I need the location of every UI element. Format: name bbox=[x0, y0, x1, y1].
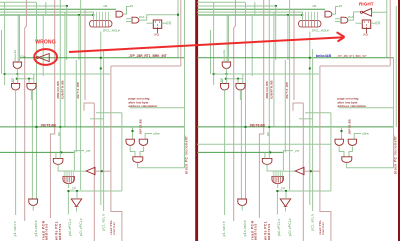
wire stub column R bbox=[254, 2, 256, 15]
wire G1 output R bbox=[267, 164, 282, 171]
wire column M2 R bbox=[287, 15, 289, 60]
wire mid column b R bbox=[312, 49, 314, 211]
inverter T1 (wrongly placed) L bbox=[39, 54, 50, 62]
wire GB input R bbox=[354, 134, 361, 140]
wire stub column L bbox=[45, 2, 47, 15]
and-gate G1 R bbox=[262, 158, 272, 164]
wire S1 bottom stub R bbox=[366, 28, 368, 33]
wire column O L bbox=[93, 12, 95, 19]
wire red column G R bbox=[259, 0, 263, 218]
wire GB input L bbox=[145, 134, 152, 140]
wire column A0 R bbox=[210, 30, 212, 74]
wire 2CA to inverter R bbox=[348, 12, 360, 20]
wire GB out L bbox=[140, 146, 143, 157]
svg-text:_J9bT8.6B: _J9bT8.6B bbox=[37, 123, 56, 127]
wire column F R bbox=[245, 2, 247, 199]
svg-text:address: address bbox=[254, 223, 258, 240]
and-gate G1 L bbox=[53, 158, 63, 164]
inverter T2 R bbox=[295, 167, 304, 174]
and-gate G4 R bbox=[238, 199, 247, 205]
wire column L R bbox=[284, 60, 286, 152]
svg-text:address: address bbox=[267, 223, 271, 240]
wire red column N R bbox=[293, 9, 295, 100]
wire inverter U2 output R bbox=[372, 12, 387, 58]
inverter T2 L bbox=[86, 167, 95, 174]
wire net H3 rail R bbox=[197, 11, 303, 13]
wire S1 right pin L bbox=[162, 22, 167, 24]
and-gate A2 L bbox=[132, 17, 139, 23]
and-gate GC L bbox=[133, 157, 143, 163]
wire column A0 L bbox=[1, 30, 3, 74]
svg-text:_J7P_J8R_RT1_BRK_INT: _J7P_J8R_RT1_BRK_INT bbox=[335, 54, 367, 58]
svg-text:p1.valce: p1.valce bbox=[13, 221, 17, 236]
wire net addr-calc vertical R bbox=[393, 58, 395, 127]
wire C2 output L bbox=[68, 184, 70, 188]
svg-text:J9/TJ.8B: J9/TJ.8B bbox=[76, 82, 80, 99]
svg-text:_J7P: _J7P bbox=[84, 150, 91, 153]
svg-text:J9: J9 bbox=[130, 4, 134, 8]
svg-text:_J7P_J8R_RT1_BRK_INT: _J7P_J8R_RT1_BRK_INT bbox=[126, 54, 167, 58]
and-gate GB L bbox=[139, 139, 147, 145]
wire net H78 R bbox=[226, 78, 243, 80]
svg-text:2w: 2w bbox=[14, 50, 17, 53]
wire red bracket R bbox=[320, 65, 390, 67]
wire right column green2 R bbox=[395, 6, 397, 127]
svg-text:J9/TJ.8B: J9/TJ.8B bbox=[285, 82, 289, 99]
wire B3 inputs R bbox=[237, 79, 239, 84]
wire G4 output R bbox=[241, 205, 243, 210]
wire A2 inputs R bbox=[335, 18, 341, 20]
wire T3 output R bbox=[285, 208, 287, 212]
wire net T8.6B R bbox=[197, 126, 394, 128]
svg-text:J6P15.8B: J6P15.8B bbox=[138, 118, 142, 134]
wire net lower jog R bbox=[283, 151, 293, 153]
flip-flop S1 L bbox=[153, 20, 161, 28]
and-gate B3 R bbox=[236, 84, 245, 91]
and-gate B1 L bbox=[13, 62, 21, 68]
wire column A R bbox=[213, 2, 215, 85]
wire red column X L bbox=[93, 103, 95, 241]
wire mid column c R bbox=[330, 113, 332, 191]
wire GB out R bbox=[349, 146, 352, 157]
wire B2 output L bbox=[15, 90, 17, 215]
and-gate GA R bbox=[335, 139, 343, 145]
wire 2CA long route L bbox=[139, 15, 178, 20]
svg-text:_J7P: _J7P bbox=[279, 188, 286, 191]
svg-text:J11: J11 bbox=[312, 4, 317, 8]
wire mid column b L bbox=[103, 49, 105, 211]
wire red bracket vertical L bbox=[111, 66, 122, 241]
svg-text:control: control bbox=[112, 222, 116, 235]
wire right column green2 L bbox=[184, 0, 186, 58]
wire B2 inputs L bbox=[13, 79, 15, 84]
wire extra net R bbox=[197, 143, 331, 145]
svg-text:pCl.vPCLv: pCl.vPCLv bbox=[288, 218, 292, 236]
wire C2 output R bbox=[277, 184, 279, 188]
svg-text:J9: J9 bbox=[339, 4, 343, 8]
wire net addr-calc R bbox=[339, 107, 394, 109]
wire right column top R bbox=[386, 0, 388, 12]
wire red bracket inner R bbox=[293, 103, 303, 111]
wire T3 feed net R bbox=[277, 190, 331, 192]
inverter U2 R bbox=[363, 8, 372, 16]
wire S1 left pin R bbox=[356, 22, 363, 24]
svg-text:pCL.vbLn: pCL.vbLn bbox=[101, 214, 105, 230]
and-gate B1 R bbox=[222, 62, 230, 68]
wire net H0 top rail R bbox=[197, 1, 246, 3]
wire A1 output to J9 L bbox=[123, 7, 129, 15]
wire T3 feed net L bbox=[68, 190, 122, 192]
wire column B L bbox=[17, 16, 19, 62]
wire column L L bbox=[75, 60, 77, 152]
wire B3 output L bbox=[30, 90, 32, 100]
wire column A2 L bbox=[42, 15, 44, 76]
connector C2 R bbox=[272, 176, 284, 183]
wire G1 inputs L bbox=[55, 152, 57, 158]
svg-text:address: address bbox=[45, 223, 49, 240]
svg-text:pbl.vPCLv: pbl.vPCLv bbox=[277, 219, 281, 236]
svg-text:R8: R8 bbox=[169, 21, 172, 25]
wire T3 output L bbox=[76, 208, 78, 212]
left half schematic bbox=[0, 0, 189, 241]
wire A2 inputs L bbox=[126, 18, 132, 20]
wire column M R bbox=[289, 0, 291, 190]
right half schematic bbox=[197, 0, 398, 241]
and-gate A2 R bbox=[341, 17, 348, 23]
svg-text:2CA: 2CA bbox=[139, 15, 145, 19]
svg-text:J11: J11 bbox=[103, 4, 108, 8]
wire red column D R bbox=[234, 0, 236, 221]
svg-text:J7.lw: J7.lw bbox=[20, 55, 26, 58]
wire T2 feed R bbox=[282, 152, 284, 171]
svg-text:p2low: p2low bbox=[153, 133, 160, 136]
svg-text:pCl.vPCLv: pCl.vPCLv bbox=[79, 218, 83, 236]
svg-text:block PC increment: block PC increment bbox=[394, 136, 398, 174]
wire column I L bbox=[59, 0, 61, 152]
wire net addr-calc vertical L bbox=[184, 58, 186, 127]
svg-text:address: address bbox=[58, 223, 62, 240]
wire GA input L bbox=[132, 127, 134, 139]
and-gate A1 R bbox=[325, 11, 332, 17]
svg-text:pbl.vPCLv: pbl.vPCLv bbox=[68, 219, 72, 236]
frame bar left sheet bbox=[195, 0, 198, 241]
svg-text:RIGHT: RIGHT bbox=[359, 2, 374, 7]
svg-text:JPCL_HOL#: JPCL_HOL# bbox=[312, 28, 329, 32]
wire column M L bbox=[80, 0, 82, 190]
wire net T8.6B L bbox=[0, 126, 185, 128]
wire column M2 L bbox=[78, 15, 80, 60]
wire column A2 R bbox=[251, 15, 253, 76]
wire column E R bbox=[240, 90, 242, 200]
svg-text:5J8/9TR.8B: 5J8/9TR.8B bbox=[61, 80, 65, 99]
svg-text:J8R/J3.8B: J8R/J3.8B bbox=[265, 81, 269, 99]
connector U1 R bbox=[299, 21, 322, 28]
wire A1 output to J9 R bbox=[332, 7, 338, 15]
wire B1 input a R bbox=[223, 54, 225, 63]
wire column J L bbox=[64, 12, 66, 127]
svg-text:J4Q1: J4Q1 bbox=[363, 33, 369, 36]
wire net BRK_INT L bbox=[19, 57, 185, 59]
flip-flop S1 R bbox=[362, 20, 370, 28]
wire GA input R bbox=[341, 127, 343, 139]
wire mid horizontal b L bbox=[90, 118, 103, 120]
wire T3 input R bbox=[285, 191, 287, 199]
svg-text:p1n.valce: p1n.valce bbox=[243, 220, 247, 236]
wire mid column c L bbox=[121, 113, 123, 191]
wire net H3 rail L bbox=[0, 11, 94, 13]
wire column B R bbox=[226, 16, 228, 62]
wire column F L bbox=[36, 2, 38, 199]
wire C2 net down R bbox=[276, 192, 278, 215]
wire net BRK_INT R bbox=[197, 57, 394, 59]
svg-text:_J7P: _J7P bbox=[70, 188, 77, 191]
and-gate GB R bbox=[348, 139, 356, 145]
and-gate GA L bbox=[126, 139, 134, 145]
wire net H74 R bbox=[214, 73, 319, 75]
wire net H1 top rail R bbox=[197, 5, 276, 7]
and-gate B3 L bbox=[27, 84, 36, 91]
inverter T3 L bbox=[71, 199, 82, 207]
wire B3 inputs L bbox=[28, 79, 30, 84]
wire B2 inputs R bbox=[222, 79, 224, 84]
wire mid horizontal a L bbox=[96, 112, 122, 114]
wire net H4 rail L bbox=[0, 14, 93, 16]
svg-text:2w: 2w bbox=[223, 50, 226, 53]
wire column I R bbox=[268, 0, 270, 152]
wire column K L bbox=[66, 6, 68, 60]
svg-text:block PC increment: block PC increment bbox=[185, 136, 189, 174]
svg-text:2CA: 2CA bbox=[348, 15, 354, 19]
svg-text:5J8/9TR.8B: 5J8/9TR.8B bbox=[270, 80, 274, 99]
wire net lower jog L bbox=[74, 151, 84, 153]
wire net H0 top rail L bbox=[0, 1, 37, 3]
wire B3 output R bbox=[239, 90, 241, 100]
wire B1 input b L bbox=[19, 16, 21, 62]
wire net addr-calc L bbox=[130, 107, 185, 109]
and-gate GC R bbox=[342, 157, 352, 163]
annotation arrow bbox=[69, 37, 344, 52]
wire right column red R bbox=[389, 0, 391, 66]
wire red column D L bbox=[25, 0, 27, 221]
svg-text:p1.valce: p1.valce bbox=[222, 221, 226, 236]
wire mid horizontal a R bbox=[305, 112, 331, 114]
wire net lower R bbox=[197, 151, 283, 153]
connector U1 L bbox=[90, 21, 113, 28]
wire C2 net down L bbox=[67, 192, 69, 215]
wire red column G L bbox=[50, 0, 54, 218]
svg-text:J8R/J3.8B: J8R/J3.8B bbox=[56, 81, 60, 99]
wire net H4 rail R bbox=[197, 14, 302, 16]
wire red column N L bbox=[84, 9, 86, 100]
wire column A L bbox=[4, 2, 6, 85]
svg-text:J4Q1: J4Q1 bbox=[154, 33, 160, 36]
svg-text:pCL.vbLn: pCL.vbLn bbox=[310, 214, 314, 230]
and-gate G4 L bbox=[29, 199, 38, 205]
wire B1 output L bbox=[16, 68, 18, 74]
svg-text:WRONG: WRONG bbox=[35, 40, 56, 46]
wire red bracket L bbox=[111, 65, 181, 67]
wire column K R bbox=[275, 6, 277, 60]
wire G1 inputs R bbox=[264, 152, 266, 158]
wire T2 output L bbox=[95, 170, 111, 172]
wire B2 output R bbox=[224, 90, 226, 215]
wire GA out L bbox=[130, 146, 135, 157]
wire S1 right pin R bbox=[371, 22, 376, 24]
wire GC out route L bbox=[138, 108, 185, 168]
wire GA out R bbox=[339, 146, 344, 157]
frame bar right sheet bbox=[398, 0, 400, 241]
svg-text:JPCL_HOL#: JPCL_HOL# bbox=[103, 28, 120, 32]
wire mid column a R bbox=[309, 32, 311, 206]
svg-text:R8: R8 bbox=[378, 21, 381, 25]
wire net H78 L bbox=[17, 78, 34, 80]
wire red column X R bbox=[302, 103, 304, 241]
wire T2 feed L bbox=[73, 152, 75, 171]
wire red bracket vertical R bbox=[320, 66, 331, 241]
wire column O R bbox=[302, 12, 304, 19]
wire G1 output L bbox=[58, 164, 73, 171]
wire column E L bbox=[31, 90, 33, 200]
wire mid horizontal b R bbox=[299, 118, 312, 120]
svg-text:control: control bbox=[321, 222, 325, 235]
wire red bracket inner L bbox=[84, 103, 94, 111]
svg-text:bnbc/AB: bnbc/AB bbox=[316, 54, 332, 58]
wire net H1 top rail L bbox=[0, 5, 67, 7]
and-gate A1 L bbox=[116, 11, 123, 17]
wire GC out route R bbox=[347, 108, 394, 168]
svg-text:p1n.valce: p1n.valce bbox=[34, 220, 38, 236]
wire 2CA route corner down L bbox=[177, 0, 179, 58]
wire B1 output R bbox=[225, 68, 227, 74]
wire column J R bbox=[273, 12, 275, 127]
wire net H74 L bbox=[5, 73, 110, 75]
svg-text:J6P15.8B: J6P15.8B bbox=[347, 118, 351, 134]
wire right column red L bbox=[180, 0, 182, 66]
wire net H2 rail L bbox=[0, 8, 116, 10]
wire mid column a L bbox=[100, 32, 102, 206]
wire B1 input a L bbox=[14, 54, 16, 63]
svg-text:p2low: p2low bbox=[362, 133, 369, 136]
inverter T3 R bbox=[280, 199, 291, 207]
wire S1 left pin L bbox=[147, 22, 154, 24]
wire B1 input b R bbox=[228, 16, 230, 62]
wire T2 output R bbox=[304, 170, 320, 172]
svg-text:_J9bT8.6B: _J9bT8.6B bbox=[246, 123, 265, 127]
wire net H2 rail R bbox=[197, 8, 325, 10]
wire T3 input L bbox=[76, 191, 78, 199]
wire S1 bottom stub L bbox=[157, 28, 159, 33]
connector C2 L bbox=[63, 176, 75, 183]
and-gate B2 R bbox=[221, 84, 229, 90]
wire G4 output L bbox=[32, 205, 34, 210]
svg-text:_J7P: _J7P bbox=[293, 150, 300, 153]
wire net lower L bbox=[0, 151, 74, 153]
annotation ellipse around inverter bbox=[34, 49, 57, 65]
and-gate B2 L bbox=[12, 84, 20, 91]
